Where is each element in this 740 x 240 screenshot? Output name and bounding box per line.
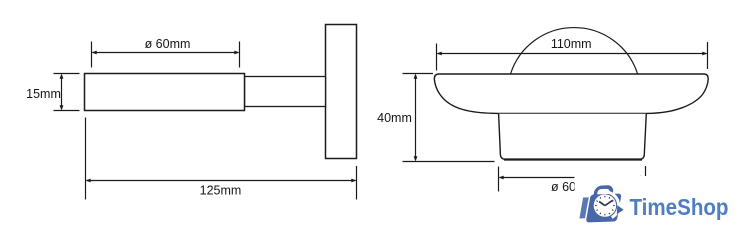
svg-text:TimeShop: TimeShop xyxy=(630,194,729,220)
dim 40mm bottom tick xyxy=(403,161,495,163)
dim 15mm top tick xyxy=(54,73,80,75)
logo background box xyxy=(575,176,740,238)
right view: dish body xyxy=(434,74,708,113)
left view: mounting stem xyxy=(245,77,326,107)
dim 110mm arrow line xyxy=(437,52,708,56)
logo arrow channel xyxy=(609,192,619,217)
dim 125mm right extension line xyxy=(356,166,358,200)
dim ø60 bottom left extension line xyxy=(498,167,500,192)
svg-text:110mm: 110mm xyxy=(551,37,592,51)
logo clock face xyxy=(594,194,616,216)
right view: soap dome arc xyxy=(511,28,638,74)
dim 40mm arrow line xyxy=(414,74,418,162)
dim 15mm arrow line xyxy=(60,74,64,111)
dim ø60 bottom arrow line xyxy=(499,176,646,180)
left view: wall plate xyxy=(326,25,357,159)
dim 15mm bottom tick xyxy=(54,110,80,112)
logo clock hour hand xyxy=(599,202,605,206)
dim ø60 bottom right extension line xyxy=(645,166,647,178)
dim ø60mm left extension line xyxy=(91,42,93,68)
dim 125mm arrow line xyxy=(86,179,357,183)
dim 125mm left extension line xyxy=(85,118,87,200)
dim 110mm right extension line xyxy=(707,42,709,69)
right view: pedestal bottom edge xyxy=(504,158,642,160)
right view: pedestal xyxy=(499,114,647,160)
left view: tube body xyxy=(85,74,245,111)
dim 40mm top tick xyxy=(403,73,434,75)
dim ø60mm arrow line xyxy=(92,51,240,55)
logo bag handle xyxy=(594,187,612,200)
logo arrow xyxy=(617,205,624,214)
logo bag body xyxy=(586,194,622,223)
logo clock minute hand xyxy=(605,200,613,205)
svg-text:15mm: 15mm xyxy=(26,87,61,101)
logo bag flap xyxy=(579,197,588,218)
svg-text:ø 60mm: ø 60mm xyxy=(145,37,191,51)
dim ø60mm right extension line xyxy=(239,42,241,68)
logo clock ticks xyxy=(595,196,615,216)
svg-text:125mm: 125mm xyxy=(200,184,242,198)
svg-text:40mm: 40mm xyxy=(377,111,412,125)
dim 110mm left extension line xyxy=(436,44,438,71)
